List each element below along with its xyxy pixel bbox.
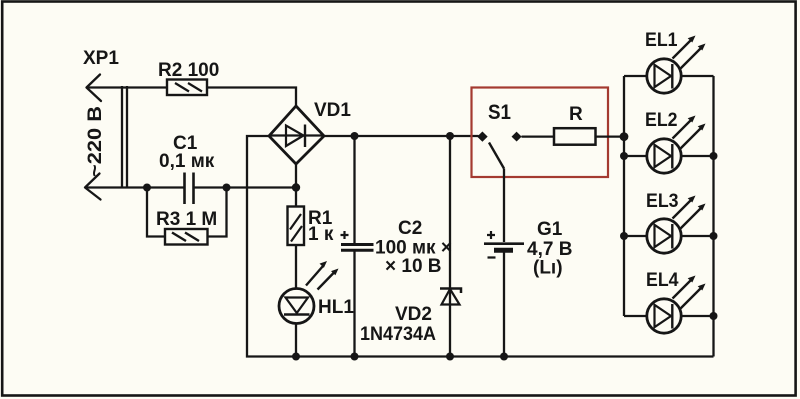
- svg-text:EL3: EL3: [646, 191, 679, 212]
- svg-text:С2: С2: [398, 218, 422, 239]
- wire: R3 parallel loop: [147, 188, 227, 237]
- svg-text:EL1: EL1: [645, 30, 678, 51]
- battery G1: [484, 231, 524, 258]
- wire: bottom mains line from plug to bridge bottom: [85, 186, 296, 188]
- wire: EL3 row: [624, 235, 714, 237]
- LED EL4: [647, 299, 681, 333]
- wire: top mains line from plug to bridge: [87, 88, 297, 107]
- XP1 plug pin arrow bottom: [85, 174, 101, 200]
- wire: LED left bus: [623, 76, 625, 316]
- resistor R3: [165, 229, 208, 245]
- EL2 emission arrows: [673, 116, 706, 149]
- wire: bridge bottom lead to AC node: [295, 164, 297, 188]
- red highlight box around S1 and R: [472, 88, 609, 178]
- wire: switch to battery: [503, 169, 505, 243]
- LED EL3: [647, 219, 681, 253]
- wire: EL1 row: [624, 75, 714, 77]
- wire: resistor R to LED bus: [596, 135, 625, 137]
- svg-text:× 10 В: × 10 В: [385, 256, 442, 277]
- svg-text:1 к: 1 к: [308, 224, 334, 245]
- node: C1 left junction: [143, 184, 151, 192]
- svg-text:(Lı): (Lı): [533, 258, 563, 279]
- HL1 emission arrows: [306, 261, 339, 290]
- wire: positive rail from bridge right corner to switch: [324, 135, 479, 137]
- wire: EL4 row: [624, 315, 714, 317]
- node: bottom rail G1 junction: [500, 353, 508, 361]
- svg-text:S1: S1: [488, 101, 511, 124]
- svg-text:HL1: HL1: [318, 297, 354, 318]
- svg-text:EL2: EL2: [645, 110, 678, 131]
- node: VD2 top junction: [446, 132, 454, 140]
- EL1 emission arrows: [673, 36, 706, 69]
- zener diode VD2: [440, 136, 461, 357]
- node: bridge bottom AC junction: [292, 183, 300, 191]
- LED EL1: [647, 59, 681, 93]
- wire: R1 / HL1 branch: [295, 188, 297, 357]
- svg-text:R2 100: R2 100: [158, 60, 219, 81]
- node: right bus EL2 junction: [710, 152, 718, 160]
- node: bottom rail VD2 junction: [446, 353, 454, 361]
- wire: right contact to resistor R: [522, 135, 555, 137]
- connector XP1 double line: [122, 86, 127, 188]
- switch S1 right contact: [512, 133, 520, 141]
- node: left bus EL2 junction: [620, 152, 628, 160]
- svg-text:1N4734A: 1N4734A: [360, 324, 436, 345]
- svg-text:VD2: VD2: [395, 304, 432, 325]
- node: rail to LED bus junction: [620, 132, 629, 141]
- svg-text:0,1 мк: 0,1 мк: [159, 151, 215, 172]
- svg-text:G1: G1: [537, 219, 563, 240]
- switch S1 lever: [489, 143, 504, 169]
- switch S1 left contact: [478, 132, 487, 141]
- capacitor C1: [185, 173, 194, 205]
- wire: DC minus from bridge left corner down and along bottom rail: [247, 136, 714, 357]
- wire: EL2 row: [624, 155, 714, 157]
- node: right bus EL3 junction: [710, 232, 718, 240]
- node: left bus EL3 junction: [620, 232, 628, 240]
- bridge rectifier VD1: [269, 106, 324, 164]
- node: right bus EL4 junction: [710, 312, 718, 320]
- svg-text:VD1: VD1: [314, 100, 351, 121]
- svg-text:EL4: EL4: [646, 270, 679, 291]
- XP1 plug pin arrow top: [87, 75, 102, 102]
- resistor R1: [288, 207, 305, 246]
- node: bottom rail HL1 junction: [292, 353, 300, 361]
- svg-text:R3 1 M: R3 1 M: [156, 209, 217, 230]
- wire: LED right bus: [712, 76, 714, 357]
- capacitor C2: [341, 136, 374, 357]
- resistor R: [554, 128, 596, 145]
- LED HL1: [279, 289, 314, 324]
- node: bottom rail C2 junction: [351, 353, 359, 361]
- node: C2 top junction: [351, 132, 359, 140]
- LED EL2: [647, 139, 681, 173]
- EL4 emission arrows: [673, 276, 706, 309]
- EL3 emission arrows: [673, 196, 706, 229]
- svg-text:R: R: [569, 104, 583, 125]
- wire: battery to bottom rail: [503, 253, 505, 357]
- resistor R2: [167, 80, 207, 96]
- svg-text:ХР1: ХР1: [83, 48, 119, 69]
- node: C1 right junction: [223, 184, 231, 192]
- svg-text:~220 В: ~220 В: [85, 106, 106, 177]
